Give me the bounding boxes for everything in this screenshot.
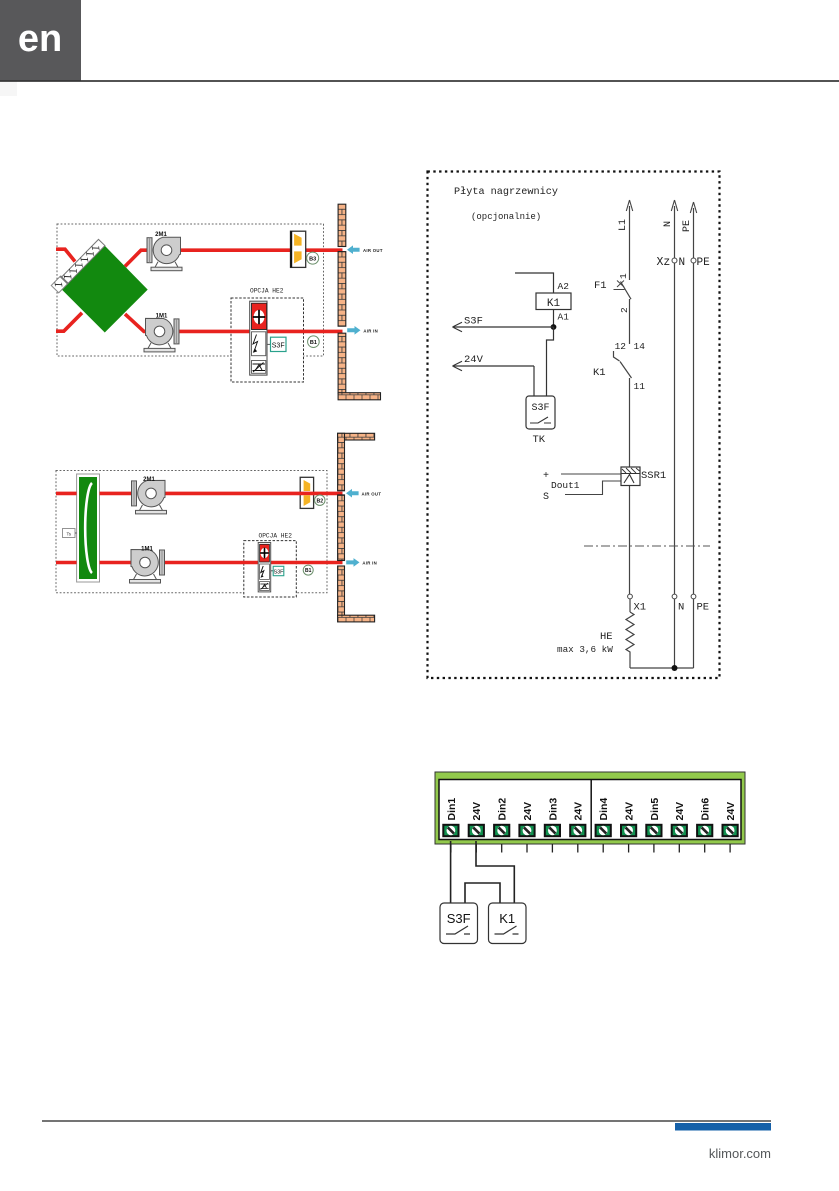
svg-text:S3F: S3F xyxy=(464,316,483,328)
svg-text:Xz: Xz xyxy=(657,256,671,269)
svg-text:SSR1: SSR1 xyxy=(641,470,666,482)
svg-text:N: N xyxy=(678,602,684,614)
svg-text:2M1: 2M1 xyxy=(143,477,155,483)
svg-text:Płyta nagrzewnicy: Płyta nagrzewnicy xyxy=(454,186,558,198)
svg-text:AIR IN: AIR IN xyxy=(362,561,377,566)
svg-text:Din6: Din6 xyxy=(700,798,712,821)
svg-text:S3F: S3F xyxy=(531,403,549,414)
svg-text:14: 14 xyxy=(634,341,646,352)
svg-text:B2: B2 xyxy=(316,498,323,504)
svg-text:24V: 24V xyxy=(522,802,534,821)
svg-text:HE: HE xyxy=(600,631,613,643)
svg-text:S: S xyxy=(543,492,549,503)
svg-text:24V: 24V xyxy=(464,354,484,366)
svg-text:24V: 24V xyxy=(471,802,483,821)
svg-text:B3: B3 xyxy=(309,256,316,262)
svg-text:24V: 24V xyxy=(674,802,686,821)
svg-text:2M1: 2M1 xyxy=(155,232,167,238)
svg-text:24V: 24V xyxy=(573,802,585,821)
svg-text:PE: PE xyxy=(697,257,711,269)
svg-text:A2: A2 xyxy=(558,281,570,292)
svg-text:S3F: S3F xyxy=(273,569,284,575)
svg-text:2: 2 xyxy=(619,307,630,313)
svg-text:K1: K1 xyxy=(547,298,561,310)
svg-text:OPCJA HE2: OPCJA HE2 xyxy=(250,288,284,295)
svg-text:TK: TK xyxy=(533,434,546,446)
svg-text:12: 12 xyxy=(615,341,627,352)
svg-text:OPCJA HE2: OPCJA HE2 xyxy=(259,533,293,540)
svg-text:(opcjonalnie): (opcjonalnie) xyxy=(471,212,541,222)
svg-text:Din1: Din1 xyxy=(446,798,458,821)
svg-text:Din3: Din3 xyxy=(547,798,559,821)
svg-text:K1: K1 xyxy=(499,911,515,926)
svg-text:11: 11 xyxy=(634,381,646,392)
svg-text:max 3,6 kW: max 3,6 kW xyxy=(557,644,613,655)
svg-text:F1: F1 xyxy=(594,280,607,292)
svg-text:K1: K1 xyxy=(593,367,606,379)
svg-text:Dout1: Dout1 xyxy=(551,480,580,491)
svg-text:B1: B1 xyxy=(310,340,317,346)
svg-text:+: + xyxy=(543,471,549,482)
svg-text:S3F: S3F xyxy=(272,342,285,349)
svg-text:AIR OUT: AIR OUT xyxy=(362,491,382,496)
svg-text:PE: PE xyxy=(697,602,710,614)
svg-text:A1: A1 xyxy=(558,312,570,323)
svg-text:B1: B1 xyxy=(305,568,312,574)
svg-text:24V: 24V xyxy=(624,802,636,821)
svg-text:Din2: Din2 xyxy=(497,798,509,821)
svg-text:klimor.com: klimor.com xyxy=(709,1146,771,1161)
svg-text:Ts: Ts xyxy=(66,531,71,536)
svg-text:1M1: 1M1 xyxy=(156,314,168,320)
svg-text:X1: X1 xyxy=(634,602,647,614)
svg-text:24V: 24V xyxy=(725,802,737,821)
svg-text:N: N xyxy=(679,257,686,269)
svg-text:1M1: 1M1 xyxy=(141,547,153,553)
svg-text:Din5: Din5 xyxy=(649,798,661,821)
svg-text:AIR IN: AIR IN xyxy=(363,328,378,333)
svg-text:PE: PE xyxy=(682,220,693,232)
svg-text:en: en xyxy=(18,18,62,60)
svg-text:N: N xyxy=(663,221,674,227)
svg-text:S3F: S3F xyxy=(447,911,471,926)
svg-text:L1: L1 xyxy=(618,219,629,231)
svg-text:1: 1 xyxy=(618,273,629,279)
svg-text:Din4: Din4 xyxy=(598,798,610,821)
svg-text:AIR OUT: AIR OUT xyxy=(363,248,383,253)
